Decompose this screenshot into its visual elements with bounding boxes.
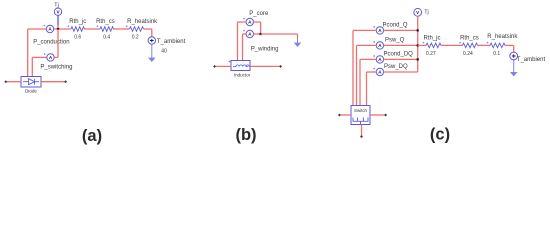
wire bus to Rth_jc (c) xyxy=(418,44,426,46)
svg-text:Rth_cs: Rth_cs xyxy=(96,19,115,25)
wire P_winding right (b) xyxy=(254,33,261,35)
wire Psw_Q down to switch (c) xyxy=(356,45,358,105)
svg-text:Diode: Diode xyxy=(25,89,37,94)
svg-text:0.1: 0.1 xyxy=(493,51,500,57)
wire Psw_Q to bus (c) xyxy=(384,44,418,46)
wire down to diode port2 (a) xyxy=(31,57,33,76)
polarity P_conduction (a) xyxy=(43,25,45,27)
svg-text:Tj: Tj xyxy=(54,2,59,8)
svg-text:0.4: 0.4 xyxy=(103,34,110,40)
svg-text:Pcond_DQ: Pcond_DQ xyxy=(384,51,414,57)
polarity R_heatsink (a) xyxy=(126,25,128,27)
wire R3 to corner (a) xyxy=(144,28,152,30)
wire P_winding left (b) xyxy=(243,33,247,35)
polarity Rth_cs (c) xyxy=(459,42,461,44)
switch left terminal (c) xyxy=(338,114,341,117)
polarity R_heatsink (c) xyxy=(487,42,489,44)
voltmeter stub (a) xyxy=(57,15,59,26)
voltage source T_ambient (a) xyxy=(148,37,155,44)
current source Psw_DQ (c) xyxy=(376,68,383,75)
svg-text:P_switching: P_switching xyxy=(40,65,72,71)
wire down to inductor port1 (b) xyxy=(237,22,239,61)
wire Pcond_DQ to bus (c) xyxy=(384,58,418,60)
current source Psw_Q (c) xyxy=(376,42,383,49)
junction bus row3 (c) xyxy=(417,58,419,60)
svg-text:P_core: P_core xyxy=(249,11,269,17)
svg-text:(a): (a) xyxy=(82,127,102,145)
switch right wire (c) xyxy=(370,114,385,116)
svg-text:Psw_Q: Psw_Q xyxy=(385,37,405,43)
wire P_core left (b) xyxy=(238,21,247,23)
wire down to inductor port2 (b) xyxy=(242,34,244,61)
wire down to T_ambient (c) xyxy=(513,45,515,52)
current source Pcond_Q (c) xyxy=(376,27,383,34)
junction node Tj (a) xyxy=(57,28,59,30)
bus wire (c) xyxy=(417,30,419,72)
voltmeter Tj (c) xyxy=(414,8,422,16)
wire R2 to R3 (a) xyxy=(114,28,130,30)
svg-text:0.27: 0.27 xyxy=(426,51,436,57)
wire left of P_conduction (a) xyxy=(28,28,47,30)
polarity P_core (b) xyxy=(243,18,245,20)
current source Pcond_DQ (c) xyxy=(376,56,383,63)
wire Rth_jc to Rth_cs (c) xyxy=(441,44,463,46)
wire Psw_DQ down to switch (c) xyxy=(366,72,368,106)
svg-text:40: 40 xyxy=(161,48,167,54)
diode right terminal (a) xyxy=(64,80,67,83)
voltmeter Tj (a) xyxy=(54,8,61,15)
polarity Rth_jc (c) xyxy=(423,42,425,44)
wire A1 to R1 (a) xyxy=(54,28,71,30)
wire down to junction (b) xyxy=(260,22,262,34)
voltage source T_ambient (c) xyxy=(510,52,518,60)
resistor R_heatsink (c) xyxy=(490,43,505,48)
svg-text:Inductor: Inductor xyxy=(234,73,251,78)
diode left terminal (a) xyxy=(4,80,7,83)
wire Psw_DQ to bus (c) xyxy=(384,71,418,73)
switch left wire (c) xyxy=(341,114,352,116)
wire R1 to R2 (a) xyxy=(85,28,101,30)
wire right of P_switching (a) xyxy=(54,56,58,58)
svg-text:(c): (c) xyxy=(430,125,450,143)
svg-text:0.2: 0.2 xyxy=(132,34,139,40)
svg-text:Rth_jc: Rth_jc xyxy=(424,36,441,42)
ground arrow (a) xyxy=(148,44,156,62)
svg-text:(b): (b) xyxy=(235,126,256,144)
wire Psw_Q left (c) xyxy=(357,44,377,46)
resistor R_heatsink (a) xyxy=(130,27,144,32)
junction bus row1 (c) xyxy=(417,29,419,31)
ground arrow (b) xyxy=(294,39,302,48)
polarity P_switching (a) xyxy=(44,53,46,55)
polarity P_winding (b) xyxy=(243,30,245,32)
diode left wire (a) xyxy=(7,81,21,83)
resistor Rth_jc (c) xyxy=(426,43,441,48)
inductor left terminal (b) xyxy=(213,65,216,68)
wire Pcond_DQ left (c) xyxy=(360,58,376,60)
polarity Pcond_DQ (c) xyxy=(373,55,375,57)
current source P_switching (a) xyxy=(47,54,54,61)
svg-text:T_ambient: T_ambient xyxy=(517,57,546,63)
svg-text:P_winding: P_winding xyxy=(251,47,279,53)
inductor right terminal (b) xyxy=(279,65,282,68)
wire down to arrow (b) xyxy=(297,34,299,39)
svg-text:R_heatsink: R_heatsink xyxy=(127,19,158,25)
wire down to diode port1 (a) xyxy=(27,29,29,77)
svg-text:Tj: Tj xyxy=(424,9,429,15)
svg-text:Switch: Switch xyxy=(354,108,367,113)
polarity Psw_Q (c) xyxy=(373,41,375,43)
wire down to T_ambient (a) xyxy=(151,29,153,37)
svg-text:Psw_DQ: Psw_DQ xyxy=(384,64,408,70)
polarity Psw_DQ (c) xyxy=(373,68,375,70)
polarity Pcond_Q (c) xyxy=(373,26,375,28)
resistor Rth_jc (a) xyxy=(71,27,85,32)
wire Pcond_DQ down to switch (c) xyxy=(359,59,361,105)
wire R_heatsink to corner (c) xyxy=(505,44,514,46)
diode right wire (a) xyxy=(41,81,65,83)
svg-text:T_ambient: T_ambient xyxy=(157,39,186,45)
polarity Rth_jc (a) xyxy=(67,25,69,27)
switch bottom terminal (c) xyxy=(360,135,363,138)
current source P_winding (b) xyxy=(246,30,253,37)
wire Pcond_Q left (c) xyxy=(353,29,376,31)
wire Psw_DQ left (c) xyxy=(367,71,377,73)
wire P_switching up to junction (a) xyxy=(57,29,59,57)
wire V to junction (a) xyxy=(57,25,59,29)
svg-text:0.24: 0.24 xyxy=(463,51,473,57)
svg-text:R_heatsink: R_heatsink xyxy=(487,34,518,40)
junction bus row2 (c) xyxy=(417,44,419,46)
svg-text:0.6: 0.6 xyxy=(74,34,81,40)
resistor Rth_cs (a) xyxy=(100,27,114,32)
wire V to bus (c) xyxy=(417,16,419,30)
junction (b) xyxy=(260,33,262,35)
wire to ground (b) xyxy=(261,33,298,35)
diode block D1 (a) xyxy=(21,77,41,88)
wire left of P_switching (a) xyxy=(32,56,47,58)
svg-text:Rth_jc: Rth_jc xyxy=(69,19,86,25)
resistor Rth_cs (c) xyxy=(463,43,478,48)
switch bottom wire (c) xyxy=(361,125,363,136)
wire Pcond_Q down to switch (c) xyxy=(352,30,354,105)
inductor block L1 (b) xyxy=(231,61,250,71)
inductor right wire (b) xyxy=(250,65,280,67)
inductor left wire (b) xyxy=(216,65,231,67)
current source P_conduction (a) xyxy=(46,25,53,32)
wire P_core right (b) xyxy=(254,21,261,23)
polarity inductor (b) xyxy=(229,61,231,63)
wire Pcond_Q to bus (c) xyxy=(384,29,418,31)
wire Rth_cs to R_heatsink (c) xyxy=(478,44,491,46)
svg-text:P_conduction: P_conduction xyxy=(33,39,69,45)
svg-text:Pcond_Q: Pcond_Q xyxy=(383,22,408,28)
ground arrow (c) xyxy=(510,60,518,77)
switch right terminal (c) xyxy=(384,114,387,117)
switch block S1 (c) xyxy=(351,106,370,125)
polarity Rth_cs (a) xyxy=(96,25,98,27)
current source P_core (b) xyxy=(246,18,253,25)
svg-text:Rth_cs: Rth_cs xyxy=(460,36,479,42)
